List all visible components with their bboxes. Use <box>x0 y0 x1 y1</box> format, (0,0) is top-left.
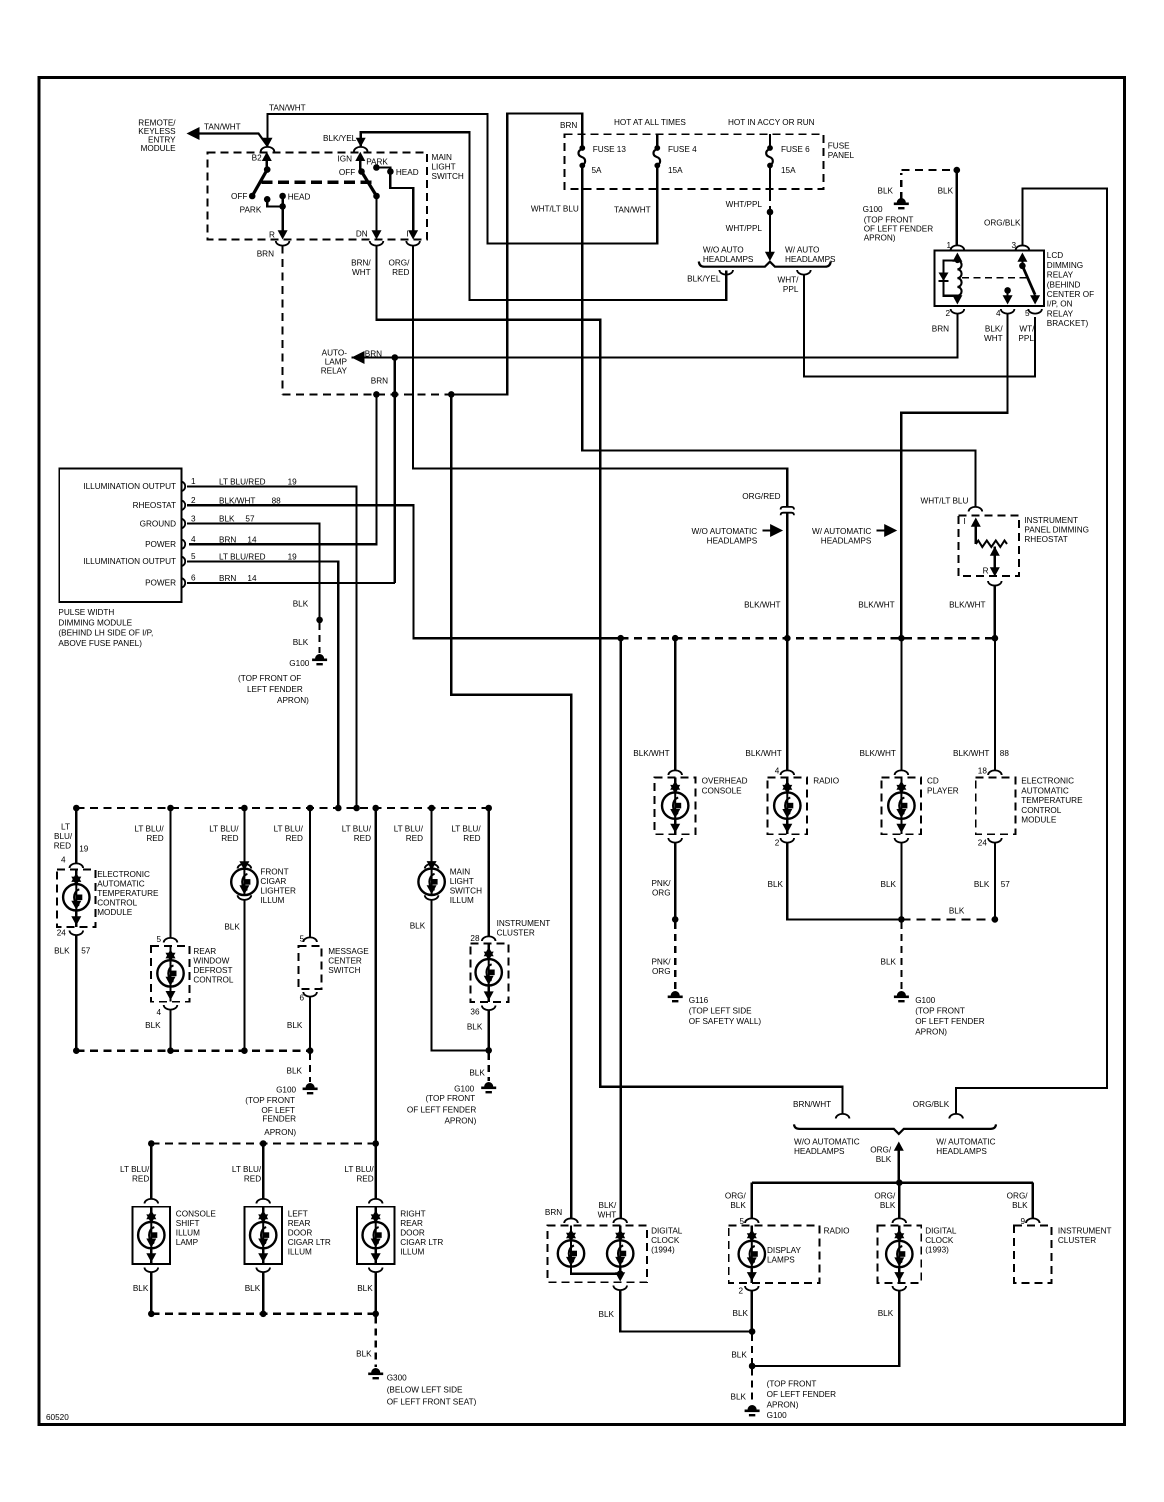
svg-text:PARK: PARK <box>366 158 388 167</box>
svg-text:RELAY: RELAY <box>1047 271 1074 280</box>
node BLK bus rear defrost <box>167 1047 174 1054</box>
svg-text:BLK/: BLK/ <box>985 325 1003 334</box>
rheostat R1 dashed box <box>958 516 1019 577</box>
svg-text:LT BLU/: LT BLU/ <box>394 825 424 834</box>
arrowhead into B2 connector <box>263 138 273 147</box>
svg-text:4: 4 <box>156 1008 161 1017</box>
wire BRN/WHT from DN to w/o-auto brace <box>377 246 843 1114</box>
svg-text:BRN: BRN <box>219 574 236 583</box>
connector EATC left pin 24 <box>70 931 84 936</box>
svg-text:REAR: REAR <box>400 1219 423 1228</box>
svg-text:DIGITAL: DIGITAL <box>651 1227 683 1236</box>
svg-text:BLK: BLK <box>731 1351 747 1360</box>
svg-text:24: 24 <box>978 839 988 848</box>
svg-text:1: 1 <box>946 241 951 250</box>
node ORG/BLK bus <box>896 1179 903 1186</box>
wire ORG/BLK to instrument cluster 9 <box>1032 1183 1034 1219</box>
connector I <box>406 241 420 246</box>
svg-text:OF LEFT FENDER: OF LEFT FENDER <box>915 1017 985 1026</box>
node BLK bus front cigar <box>241 1047 248 1054</box>
brace bottom headlamp options <box>794 1124 996 1134</box>
svg-text:BLK: BLK <box>219 515 235 524</box>
svg-text:MODULE: MODULE <box>141 144 177 153</box>
svg-text:LT BLU/: LT BLU/ <box>120 1165 150 1174</box>
svg-text:CLUSTER: CLUSTER <box>497 929 535 938</box>
svg-text:HOT IN ACCY OR RUN: HOT IN ACCY OR RUN <box>728 118 815 127</box>
svg-text:BLK/WHT: BLK/WHT <box>858 601 894 610</box>
svg-text:BLK/WHT: BLK/WHT <box>744 601 780 610</box>
svg-text:BLK: BLK <box>54 947 70 956</box>
svg-text:RHEOSTAT: RHEOSTAT <box>133 501 176 510</box>
svg-text:88: 88 <box>272 496 282 505</box>
wire ORG/RED below connector to dimming bus <box>786 514 788 639</box>
connector instrument cluster pin 9 <box>1026 1218 1040 1223</box>
node lamp bus pin1 feed <box>353 805 360 812</box>
wire BRN junction down to bus <box>394 358 396 584</box>
svg-text:PULSE WIDTH: PULSE WIDTH <box>58 608 114 617</box>
wire LT BLU/RED to console shift illum lamp <box>150 1144 152 1200</box>
fuse panel dashed box <box>565 134 824 189</box>
lamp left rear door cigar lighter box <box>245 1207 282 1264</box>
connector main light switch illum bottom <box>425 895 439 900</box>
svg-text:5: 5 <box>1025 309 1030 318</box>
svg-text:ELECTRONIC: ELECTRONIC <box>97 870 150 879</box>
svg-text:FENDER: FENDER <box>262 1114 296 1123</box>
svg-text:RED: RED <box>356 1175 373 1184</box>
svg-text:RED: RED <box>286 834 303 843</box>
svg-text:(1994): (1994) <box>651 1246 675 1255</box>
connector console shift illum lamp bottom <box>145 1268 159 1273</box>
svg-text:FUSE 6: FUSE 6 <box>781 145 810 154</box>
svg-text:BRN: BRN <box>545 1208 562 1217</box>
pulse width dimming module box U1 <box>59 468 181 602</box>
svg-text:HEADLAMPS: HEADLAMPS <box>821 537 872 546</box>
node lamp bus instrument cluster <box>485 805 492 812</box>
svg-text:BLK: BLK <box>287 1021 303 1030</box>
svg-text:HEADLAMPS: HEADLAMPS <box>707 537 758 546</box>
svg-text:BLK: BLK <box>293 638 309 647</box>
svg-text:5: 5 <box>156 935 161 944</box>
svg-text:ABOVE FUSE PANEL): ABOVE FUSE PANEL) <box>58 639 142 648</box>
connector front cigar bottom <box>238 895 252 900</box>
svg-text:BLK: BLK <box>731 1393 747 1402</box>
relay switch wiper pin 3 to pin 5 <box>1017 253 1027 262</box>
lamp radio dashed box <box>768 777 808 834</box>
svg-text:(TOP FRONT: (TOP FRONT <box>425 1094 475 1103</box>
connector right rear door cigar lighter top <box>369 1199 383 1204</box>
svg-text:W/O AUTOMATIC: W/O AUTOMATIC <box>692 527 758 536</box>
connector EATC left pin 4 <box>70 863 84 868</box>
wire BLK/WHT drop to radio <box>786 638 788 770</box>
svg-text:RHEOSTAT: RHEOSTAT <box>1024 535 1067 544</box>
connector digital clock 1994 left <box>564 1218 578 1223</box>
svg-text:TEMPERATURE: TEMPERATURE <box>1021 796 1083 805</box>
wire BLK radio display lamps <box>751 1291 753 1332</box>
svg-text:ORG/RED: ORG/RED <box>742 492 780 501</box>
connector w automatic headlamps bottom <box>949 1114 963 1119</box>
svg-text:I: I <box>964 517 966 526</box>
svg-text:WHT/: WHT/ <box>777 276 799 285</box>
svg-text:FRONT: FRONT <box>260 868 288 877</box>
svg-text:TAN/WHT: TAN/WHT <box>269 104 306 113</box>
svg-text:CONTROL: CONTROL <box>97 899 137 908</box>
svg-text:CD: CD <box>927 777 939 786</box>
ground G100 left lamps <box>306 1083 315 1088</box>
svg-text:(1993): (1993) <box>925 1246 949 1255</box>
wire BLK main light switch illum <box>432 900 489 1051</box>
svg-text:PNK/: PNK/ <box>651 879 671 888</box>
svg-text:OF LEFT FRONT SEAT): OF LEFT FRONT SEAT) <box>387 1398 477 1407</box>
svg-text:ORG/: ORG/ <box>725 1192 747 1201</box>
svg-text:RELAY: RELAY <box>1047 309 1074 318</box>
wire BLK instrument cluster <box>488 1010 490 1050</box>
svg-text:(TOP LEFT SIDE: (TOP LEFT SIDE <box>689 1007 752 1016</box>
bus LT BLU/RED lower dashed <box>151 1142 375 1144</box>
connector w auto branch <box>797 270 811 275</box>
svg-text:BLK: BLK <box>469 1069 485 1078</box>
wire BRN dashed from R to BRN bus <box>281 246 283 395</box>
node lower bus left rear door <box>260 1140 267 1147</box>
connector relay pin 5 <box>1028 309 1042 314</box>
svg-text:BLK/WHT: BLK/WHT <box>953 749 989 758</box>
svg-text:APRON): APRON) <box>864 234 896 243</box>
connector instrument cluster pin 28 <box>482 936 496 941</box>
svg-text:LT BLU/RED: LT BLU/RED <box>219 478 266 487</box>
svg-text:IGN: IGN <box>337 155 352 164</box>
ground G100 top right <box>897 198 906 203</box>
svg-text:BLK: BLK <box>881 880 897 889</box>
svg-text:WHT: WHT <box>598 1211 617 1220</box>
wire ORG/BLK relay pin 3 to bottom brace <box>956 189 1107 1114</box>
svg-text:2: 2 <box>775 839 780 848</box>
inline connector on ORG/RED <box>781 507 794 510</box>
svg-text:ORG: ORG <box>652 889 671 898</box>
svg-text:G100: G100 <box>289 659 309 668</box>
svg-text:MODULE: MODULE <box>97 908 133 917</box>
svg-text:BRN/WHT: BRN/WHT <box>793 1100 831 1109</box>
svg-text:5A: 5A <box>592 166 603 175</box>
wire BRN fuse 13 feed <box>451 113 582 394</box>
svg-text:RADIO: RADIO <box>824 1227 850 1236</box>
wire BRN bus to pulse module pin 4 <box>189 394 376 544</box>
bulb cd player <box>900 777 902 783</box>
svg-text:88: 88 <box>1000 749 1010 758</box>
svg-text:CONTROL: CONTROL <box>1021 806 1061 815</box>
switch S2 IGN wiper <box>355 152 365 161</box>
wire TAN/WHT from fuse 4 to main light switch B2 <box>268 114 658 244</box>
svg-text:SWITCH: SWITCH <box>328 966 360 975</box>
svg-text:RED: RED <box>244 1175 261 1184</box>
digital clock 1994 dashed box <box>548 1226 648 1283</box>
connector left rear door cigar lighter top <box>256 1199 270 1204</box>
svg-text:ORG: ORG <box>652 967 671 976</box>
connector radio pin 5 <box>745 1218 759 1223</box>
svg-text:5: 5 <box>191 552 196 561</box>
node lower BLK bus left rear door <box>260 1311 267 1318</box>
connector R <box>276 241 290 246</box>
svg-text:FUSE 13: FUSE 13 <box>593 145 627 154</box>
svg-text:W/ AUTOMATIC: W/ AUTOMATIC <box>936 1138 995 1147</box>
svg-text:PLAYER: PLAYER <box>927 786 959 795</box>
instrument cluster bottom dashed box <box>1014 1226 1052 1283</box>
svg-text:CONSOLE: CONSOLE <box>176 1210 217 1219</box>
wire LT BLU/RED to left rear door cigar lighter <box>262 1144 264 1200</box>
bulb left rear door cigar lighter <box>262 1207 264 1213</box>
ground G116 <box>671 991 680 996</box>
svg-text:BRN: BRN <box>257 250 274 259</box>
relay K1 LCD dimming relay box <box>935 251 1044 307</box>
brace w/o auto / w auto headlamps <box>699 262 831 267</box>
wire BLK front cigar to bus <box>243 900 245 1051</box>
node dimming bus radio <box>784 635 791 642</box>
arrowhead into IGN connector <box>356 138 366 147</box>
svg-text:I/P, ON: I/P, ON <box>1047 300 1073 309</box>
svg-text:MAIN: MAIN <box>450 868 471 877</box>
relay coil <box>952 253 962 262</box>
wire BLK console shift illum lamp to ground bus <box>150 1272 152 1314</box>
wire BLK/WHT drop to cd player <box>900 638 902 770</box>
svg-text:1: 1 <box>191 477 196 486</box>
main light switch dashed box <box>208 152 427 239</box>
wire BLK digital clock 1993 <box>752 1291 899 1367</box>
svg-text:SWITCH: SWITCH <box>432 172 464 181</box>
connector digital clock 1993 top <box>893 1218 907 1223</box>
svg-text:HOT AT ALL TIMES: HOT AT ALL TIMES <box>614 118 686 127</box>
wire BLK message center to bus <box>309 997 311 1051</box>
bulb console shift illum lamp <box>150 1207 152 1213</box>
svg-text:57: 57 <box>1001 880 1011 889</box>
bus BRN dashed <box>282 393 451 395</box>
wire I output inside switch <box>390 172 413 236</box>
svg-text:LAMPS: LAMPS <box>767 1256 795 1265</box>
svg-text:BLK: BLK <box>145 1021 161 1030</box>
connector relay pin 1 <box>951 245 965 250</box>
relay linkage dashed <box>962 277 1027 279</box>
node BLK splice EATC <box>992 916 999 923</box>
connector cd player top <box>895 770 909 775</box>
connector B2 <box>261 147 275 152</box>
wire BLK/WHT drop to overhead console <box>674 638 676 770</box>
bus BLK lower dashed <box>151 1313 375 1315</box>
svg-text:DIGITAL: DIGITAL <box>925 1227 957 1236</box>
svg-text:APRON): APRON) <box>915 1028 947 1037</box>
svg-text:MESSAGE: MESSAGE <box>328 947 369 956</box>
svg-text:BLK: BLK <box>133 1284 149 1293</box>
svg-text:CENTER: CENTER <box>328 957 362 966</box>
svg-text:INSTRUMENT: INSTRUMENT <box>1024 516 1078 525</box>
node lamp bus EATC <box>73 805 80 812</box>
bulb radio <box>786 777 788 783</box>
instrument cluster dashed box <box>470 944 508 1003</box>
svg-text:WHT/LT BLU: WHT/LT BLU <box>920 497 968 506</box>
wire BLK left rear door cigar lighter to ground bus <box>262 1272 264 1314</box>
wire BLK cd player down <box>900 843 902 920</box>
svg-text:CIGAR LTR: CIGAR LTR <box>400 1238 443 1247</box>
svg-text:SHIFT: SHIFT <box>176 1219 200 1228</box>
svg-text:LT: LT <box>61 823 70 832</box>
node lower bus right rear door <box>372 1140 379 1147</box>
svg-text:W/O AUTO: W/O AUTO <box>703 246 744 255</box>
svg-text:AUTOMATIC: AUTOMATIC <box>97 880 145 889</box>
svg-text:GROUND: GROUND <box>140 519 176 528</box>
wire BLK 57 EATC left to bus <box>75 935 77 1051</box>
connector right rear door cigar lighter bottom <box>369 1268 383 1273</box>
svg-text:OVERHEAD: OVERHEAD <box>702 777 748 786</box>
svg-text:BRACKET): BRACKET) <box>1047 319 1089 328</box>
wire BLK/WHT rheostat to dimming bus <box>994 586 996 639</box>
wire WHT/PPL to relay pin 5 <box>804 275 1035 377</box>
svg-text:DIMMING MODULE: DIMMING MODULE <box>58 618 132 627</box>
svg-text:SWITCH: SWITCH <box>450 887 482 896</box>
connector digital clock 1994 bottom <box>613 1286 627 1291</box>
svg-text:WHT: WHT <box>984 334 1003 343</box>
connector cd player bottom <box>895 838 909 843</box>
wire BLK dashed to G100 top right <box>900 173 902 199</box>
svg-text:RED: RED <box>463 834 480 843</box>
node dimming bus right end <box>992 635 999 642</box>
svg-text:LAMP: LAMP <box>176 1238 199 1247</box>
lamp right rear door cigar lighter box <box>357 1207 394 1264</box>
svg-text:BLK: BLK <box>881 958 897 967</box>
svg-text:LT BLU/RED: LT BLU/RED <box>219 553 266 562</box>
svg-text:CLOCK: CLOCK <box>925 1236 954 1245</box>
svg-text:TEMPERATURE: TEMPERATURE <box>97 889 159 898</box>
svg-text:B2: B2 <box>252 154 262 163</box>
svg-text:RED: RED <box>221 834 238 843</box>
svg-text:WHT/PPL: WHT/PPL <box>726 200 763 209</box>
bulb instrument cluster <box>488 944 490 950</box>
svg-text:ORG/: ORG/ <box>1007 1192 1029 1201</box>
svg-text:BLK: BLK <box>1012 1201 1028 1210</box>
svg-text:AUTO-: AUTO- <box>322 349 348 358</box>
svg-text:INSTRUMENT: INSTRUMENT <box>497 919 551 928</box>
node lamp bus rear defrost <box>167 805 174 812</box>
connector digital clock 1994 right <box>613 1218 627 1223</box>
svg-text:PANEL DIMMING: PANEL DIMMING <box>1024 526 1089 535</box>
fuse F4 15A <box>654 145 660 151</box>
ground G100 left <box>315 654 324 659</box>
lamp overhead console dashed box <box>655 777 696 834</box>
svg-text:PPL: PPL <box>1018 334 1034 343</box>
svg-text:4: 4 <box>996 309 1001 318</box>
connector front cigar top <box>238 864 252 869</box>
svg-text:RED: RED <box>54 842 71 851</box>
wire pin 1 LT BLU/RED to lamp bus <box>187 486 357 808</box>
message center switch dashed box <box>299 946 322 989</box>
wire PNK/ORG overhead console down <box>674 843 676 920</box>
connector left rear door cigar lighter bottom <box>256 1268 270 1273</box>
svg-text:WHT/PPL: WHT/PPL <box>726 224 763 233</box>
svg-text:(TOP FRONT: (TOP FRONT <box>245 1096 295 1105</box>
svg-text:3: 3 <box>191 514 196 523</box>
svg-text:(BELOW LEFT SIDE: (BELOW LEFT SIDE <box>387 1386 463 1395</box>
svg-text:14: 14 <box>247 574 257 583</box>
wire pin 2 BLK/WHT to dimming bus <box>187 505 621 638</box>
wire BLK/YEL from fuse panel brace to IGN <box>361 132 727 300</box>
bulb EATC left <box>75 870 77 876</box>
svg-text:BLK/WHT: BLK/WHT <box>633 749 669 758</box>
svg-text:BLK: BLK <box>245 1284 261 1293</box>
svg-text:RED: RED <box>132 1175 149 1184</box>
ground G100 under cd player <box>897 991 906 996</box>
connector relay pin 4 <box>1001 309 1015 314</box>
svg-text:ELECTRONIC: ELECTRONIC <box>1021 777 1074 786</box>
svg-text:(BEHIND: (BEHIND <box>1047 280 1081 289</box>
svg-text:G116: G116 <box>689 996 709 1005</box>
wire BLK/WHT bus to digital clock 1994 <box>620 638 622 1218</box>
node PNK/ORG splice <box>672 916 679 923</box>
svg-text:POWER: POWER <box>145 540 176 549</box>
wire LT BLU/RED to instrument cluster <box>488 808 490 937</box>
svg-text:(TOP FRONT: (TOP FRONT <box>864 216 914 225</box>
wire ORG/BLK to digital clock 1993 <box>898 1183 900 1219</box>
svg-text:15A: 15A <box>781 166 796 175</box>
svg-text:TAN/WHT: TAN/WHT <box>204 123 241 132</box>
ground G100 under instrument cluster <box>484 1082 493 1087</box>
bulb main light switch illum <box>418 869 444 895</box>
svg-text:ILLUM: ILLUM <box>176 1229 200 1238</box>
node BLK splice radio clock <box>749 1328 756 1335</box>
svg-text:POWER: POWER <box>145 579 176 588</box>
connector message center pin 5 <box>303 937 317 942</box>
svg-text:BLK: BLK <box>880 1201 896 1210</box>
connector relay pin 3 <box>1016 245 1030 250</box>
svg-text:OF LEFT FENDER: OF LEFT FENDER <box>407 1106 477 1115</box>
bulb digital clock 1994 right <box>619 1226 621 1232</box>
wire pin 5 LT BLU/RED to lamp bus <box>187 561 338 808</box>
bulb rear window defrost <box>169 946 171 952</box>
svg-text:AUTOMATIC: AUTOMATIC <box>1021 786 1069 795</box>
svg-text:FUSE: FUSE <box>828 142 850 151</box>
svg-text:BLK: BLK <box>938 187 954 196</box>
svg-text:BLK/WHT: BLK/WHT <box>219 496 255 505</box>
svg-text:6: 6 <box>299 994 304 1003</box>
svg-text:OFF: OFF <box>339 168 355 177</box>
svg-text:APRON): APRON) <box>277 696 309 705</box>
svg-text:HEADLAMPS: HEADLAMPS <box>794 1147 845 1156</box>
wire LT BLU/RED to front cigar lighter <box>243 808 245 864</box>
svg-text:(BEHIND LH SIDE OF I/P,: (BEHIND LH SIDE OF I/P, <box>58 629 153 638</box>
connector w/o automatic headlamps bottom <box>836 1114 850 1119</box>
bulb right rear door cigar lighter <box>375 1207 377 1213</box>
svg-text:BRN: BRN <box>365 350 382 359</box>
svg-text:BLK: BLK <box>974 880 990 889</box>
svg-text:LCD: LCD <box>1047 251 1063 260</box>
node BRN junction <box>392 354 399 361</box>
svg-text:4: 4 <box>61 856 66 865</box>
node BLK bus message center <box>307 1047 314 1054</box>
svg-text:LT BLU/: LT BLU/ <box>134 825 164 834</box>
svg-text:ILLUMINATION OUTPUT: ILLUMINATION OUTPUT <box>83 482 176 491</box>
svg-text:57: 57 <box>245 515 255 524</box>
svg-text:G100: G100 <box>767 1411 787 1420</box>
svg-text:BLK: BLK <box>733 1309 749 1318</box>
svg-text:LIGHT: LIGHT <box>450 877 474 886</box>
node lower BLK bus right rear door <box>372 1311 379 1318</box>
svg-text:BLK/: BLK/ <box>599 1201 617 1210</box>
bulb front cigar lighter illum <box>231 869 257 895</box>
svg-text:BLK: BLK <box>410 922 426 931</box>
bulb digital clock 1993 <box>898 1226 900 1232</box>
wire pin 6 BRN up to BRN junction <box>187 582 395 584</box>
switch S1 B2 wiper <box>262 152 272 161</box>
svg-text:4: 4 <box>191 535 196 544</box>
svg-text:PPL: PPL <box>783 285 799 294</box>
svg-text:BLK: BLK <box>467 1023 483 1032</box>
node BLK splice instrument cluster <box>485 1047 492 1054</box>
svg-text:R: R <box>269 230 275 239</box>
connector relay pin 2 <box>951 309 965 314</box>
